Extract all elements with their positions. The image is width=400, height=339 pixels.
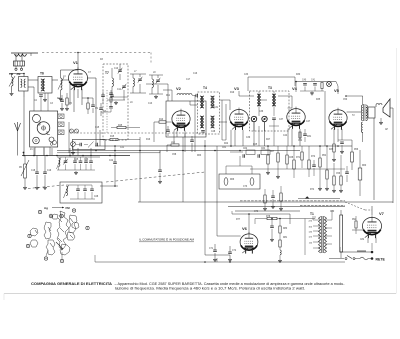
svg-text:C15: C15 bbox=[95, 127, 100, 129]
cap C7 bbox=[43, 156, 52, 190]
antenna transformer L2 bbox=[19, 74, 29, 156]
V6 output network bbox=[249, 216, 315, 262]
svg-text:R25: R25 bbox=[253, 144, 258, 146]
svg-text:C19: C19 bbox=[47, 170, 52, 172]
converter shield box bbox=[166, 101, 206, 137]
svg-text:C70: C70 bbox=[254, 211, 259, 213]
volume pot near box bbox=[71, 142, 76, 155]
first AF components bbox=[263, 186, 283, 210]
svg-text:V7: V7 bbox=[379, 211, 385, 216]
svg-text:C47: C47 bbox=[306, 121, 311, 123]
svg-text:C18: C18 bbox=[31, 170, 36, 172]
svg-text:C26: C26 bbox=[84, 159, 89, 161]
svg-text:R39: R39 bbox=[329, 149, 334, 151]
svg-text:V2: V2 bbox=[176, 86, 182, 91]
title text line1 bbox=[31, 282, 345, 286]
svg-text:C52: C52 bbox=[298, 140, 303, 142]
components box mid-left bbox=[72, 139, 105, 149]
FM dipole antenna bbox=[11, 53, 38, 70]
IF transformer T6 bbox=[34, 72, 58, 112]
svg-text:C71: C71 bbox=[209, 248, 214, 250]
IF transformer T3 bbox=[250, 86, 290, 131]
resistor on rail bbox=[100, 125, 140, 146]
svg-text:R54: R54 bbox=[322, 155, 327, 157]
svg-text:C31: C31 bbox=[214, 107, 219, 109]
svg-text:C16: C16 bbox=[193, 73, 198, 75]
tube V5 bbox=[329, 108, 347, 130]
tube V6 bbox=[240, 226, 258, 254]
long vertical x217 bbox=[216, 146, 218, 236]
T7 tuned circuit bbox=[107, 64, 126, 104]
svg-text:C61: C61 bbox=[222, 147, 227, 149]
wires T8 to V2 bbox=[146, 84, 172, 101]
svg-text:C21: C21 bbox=[120, 147, 125, 149]
caption commutatore bbox=[139, 237, 195, 242]
wire speaker down bbox=[374, 108, 393, 203]
svg-text:C62: C62 bbox=[243, 148, 248, 150]
svg-text:R77: R77 bbox=[236, 219, 241, 221]
svg-text:R91: R91 bbox=[352, 219, 357, 221]
mechanical link dash line bbox=[28, 172, 205, 189]
rail y146 bbox=[95, 145, 352, 147]
rod antenna bbox=[15, 122, 25, 156]
tuner unit socket box bbox=[30, 111, 64, 156]
HT rail mid bbox=[228, 206, 345, 207]
volume potentiometer bbox=[19, 156, 29, 190]
svg-text:C36: C36 bbox=[259, 111, 264, 113]
svg-text:V5: V5 bbox=[334, 88, 340, 93]
oscillator transformer T4 bbox=[198, 86, 220, 134]
title text line2 bbox=[115, 287, 305, 291]
trimmer circles pair bbox=[69, 122, 79, 153]
bottom rail bbox=[95, 255, 345, 263]
cap mid left bbox=[100, 146, 118, 187]
svg-text:C41: C41 bbox=[311, 80, 316, 82]
coil atop converter box bbox=[177, 73, 198, 97]
page edge line bbox=[4, 48, 397, 300]
svg-text:R19: R19 bbox=[230, 92, 235, 94]
svg-text:C10: C10 bbox=[114, 68, 119, 70]
svg-text:V4: V4 bbox=[292, 86, 298, 91]
tuning gang dash link bbox=[70, 132, 205, 134]
tube V7 rectifier bbox=[362, 211, 384, 238]
V3 pin wires bbox=[231, 91, 254, 146]
svg-text:C50: C50 bbox=[343, 99, 348, 101]
svg-text:C73: C73 bbox=[243, 186, 248, 188]
svg-text:C80: C80 bbox=[330, 211, 335, 213]
svg-text:lazione di frequenza. Media fr: lazione di frequenza. Media frequenza a … bbox=[115, 287, 305, 291]
power transformer T1 bbox=[309, 210, 332, 253]
rail y150 bbox=[57, 150, 300, 152]
svg-text:T4: T4 bbox=[203, 86, 207, 90]
svg-text:– Apparecchio Mod. CGE 2587 SU: – Apparecchio Mod. CGE 2587 SUPER BARDET… bbox=[115, 282, 345, 286]
svg-text:R10: R10 bbox=[159, 119, 164, 121]
svg-text:V6: V6 bbox=[242, 226, 248, 231]
svg-text:C37: C37 bbox=[279, 119, 284, 121]
svg-text:R27: R27 bbox=[266, 139, 271, 141]
svg-text:R60: R60 bbox=[362, 165, 367, 167]
svg-text:RETE: RETE bbox=[376, 258, 386, 262]
svg-text:R72: R72 bbox=[311, 156, 316, 158]
V2 pin extensions bbox=[177, 131, 185, 137]
volume network box bbox=[219, 156, 260, 189]
svg-text:Ag: Ag bbox=[44, 206, 48, 210]
V4 pin wires bbox=[288, 129, 312, 147]
svg-text:COMPAGNIA GENERALE DI ELETTRIC: COMPAGNIA GENERALE DI ELETTRICITA bbox=[31, 282, 113, 286]
svg-text:C72: C72 bbox=[232, 250, 237, 252]
rail y169 segment bbox=[250, 168, 345, 170]
svg-text:R45: R45 bbox=[118, 125, 123, 127]
svg-text:C58: C58 bbox=[172, 154, 177, 156]
svg-text:T6: T6 bbox=[40, 72, 44, 76]
misc tiny labels bbox=[30, 59, 389, 241]
band switch detail Ag-FM bbox=[26, 206, 89, 263]
wires T3 out bbox=[222, 96, 321, 146]
mains switch and plug RETE bbox=[329, 247, 386, 262]
filter capacitor can bbox=[340, 210, 343, 258]
long vertical x140 bbox=[139, 137, 141, 202]
svg-text:C40: C40 bbox=[302, 80, 307, 82]
svg-text:R56: R56 bbox=[354, 149, 359, 151]
svg-text:C39: C39 bbox=[246, 137, 251, 139]
V1 wiring bbox=[61, 52, 97, 146]
tube V3 bbox=[230, 86, 249, 130]
svg-text:R71: R71 bbox=[296, 157, 301, 159]
svg-text:R63: R63 bbox=[197, 155, 202, 157]
V2 input components bbox=[154, 119, 172, 142]
AVC resistors bbox=[266, 146, 294, 178]
svg-text:C25: C25 bbox=[74, 159, 79, 161]
svg-text:C68: C68 bbox=[289, 157, 294, 159]
wire antenna to T6 bbox=[28, 80, 38, 111]
heater dashed rail top bbox=[42, 53, 151, 64]
grid components below V1 bbox=[82, 97, 107, 116]
HT rail lower bbox=[235, 210, 300, 212]
supply resistor chain bbox=[318, 146, 343, 192]
coupling caps right cluster bbox=[293, 146, 316, 178]
labels FM AM bbox=[10, 73, 25, 76]
FM padder box bbox=[60, 182, 102, 203]
svg-text:R30: R30 bbox=[296, 74, 301, 76]
tube V1 bbox=[68, 60, 87, 90]
svg-text:C33: C33 bbox=[244, 74, 249, 76]
svg-text:R67: R67 bbox=[270, 151, 275, 153]
wire V6 top bbox=[232, 211, 290, 234]
svg-text:C48: C48 bbox=[211, 131, 216, 133]
padder row bbox=[57, 157, 101, 174]
svg-text:R81: R81 bbox=[283, 237, 288, 239]
svg-text:C64: C64 bbox=[261, 148, 266, 150]
svg-text:R66: R66 bbox=[230, 179, 235, 181]
antenna coil L1 bbox=[9, 74, 24, 96]
svg-text:R22: R22 bbox=[224, 143, 229, 145]
dashed shield box T7 bbox=[103, 64, 128, 140]
svg-text:FM: FM bbox=[66, 206, 71, 210]
svg-text:R80: R80 bbox=[283, 228, 288, 230]
svg-text:C17: C17 bbox=[186, 79, 191, 81]
svg-text:R31: R31 bbox=[307, 136, 312, 138]
svg-text:AP: AP bbox=[385, 128, 389, 131]
svg-text:R16: R16 bbox=[146, 139, 151, 141]
line above T3 bbox=[248, 77, 295, 91]
svg-text:C22: C22 bbox=[109, 160, 114, 162]
coil L3 bbox=[58, 70, 66, 100]
long vertical x160 bbox=[158, 151, 162, 184]
main bus left bbox=[22, 155, 130, 157]
svg-text:R74: R74 bbox=[310, 189, 315, 191]
svg-text:R78: R78 bbox=[266, 216, 271, 218]
tube V2 bbox=[172, 86, 190, 131]
wires T4 to V3 bbox=[190, 100, 230, 122]
rail y152 bbox=[57, 151, 160, 153]
output transformer T2 bbox=[345, 95, 367, 142]
verticals from boxes to bus bbox=[34, 148, 91, 156]
svg-text:C28: C28 bbox=[94, 196, 99, 198]
HT rail upper bbox=[138, 201, 393, 202]
HT rail arrowmark bbox=[298, 196, 340, 198]
svg-text:T3: T3 bbox=[268, 86, 272, 90]
svg-text:R15: R15 bbox=[110, 136, 115, 138]
cap C6 bbox=[31, 156, 39, 190]
svg-text:C82: C82 bbox=[360, 239, 365, 241]
long vertical x183 bbox=[182, 137, 184, 202]
svg-text:V3: V3 bbox=[234, 86, 240, 91]
tuned circuits T8 bbox=[130, 71, 163, 98]
V6 cathode caps bbox=[209, 244, 237, 261]
svg-text:C56: C56 bbox=[336, 173, 341, 175]
wire bus to V6 bbox=[205, 236, 241, 255]
svg-text:C44: C44 bbox=[283, 135, 288, 137]
wires V5 to output transformer bbox=[329, 112, 361, 161]
svg-text:R35: R35 bbox=[316, 99, 321, 101]
decoupling row above V4 V5 bbox=[295, 80, 339, 147]
tube V4 bbox=[287, 86, 305, 129]
svg-text:T1: T1 bbox=[310, 212, 314, 216]
long vertical x205 bbox=[204, 140, 206, 255]
V1 cathode components bbox=[57, 93, 73, 110]
speaker bbox=[366, 99, 390, 124]
svg-text:C13: C13 bbox=[148, 103, 153, 105]
V2 bottom components bbox=[167, 131, 194, 152]
detector caps row bbox=[230, 148, 270, 158]
long vertical x195 bbox=[194, 95, 196, 152]
svg-text:T7: T7 bbox=[105, 71, 109, 75]
resistor R56 high bbox=[338, 140, 367, 196]
T7 inner plate chain bbox=[101, 90, 128, 133]
V7 wiring bbox=[345, 202, 376, 250]
